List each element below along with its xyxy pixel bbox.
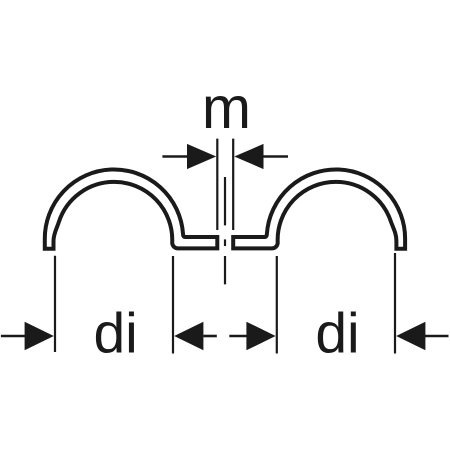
arrow tail m right [263, 155, 289, 158]
arrowhead di 1 (points right) [25, 322, 54, 351]
extension line di right-inner [276, 256, 278, 354]
svg-text:m: m [202, 75, 251, 141]
pipe profile left (band outline) [45, 169, 218, 248]
extension line m left [216, 139, 218, 230]
svg-text:di: di [315, 302, 359, 366]
pipe profile right (band outline) [233, 169, 405, 248]
arrowhead m right (points left) [234, 144, 263, 169]
arrow tail di 1 [1, 335, 26, 338]
center line (dashed) between pipes [224, 177, 226, 284]
arrowhead di 3 (points right) [246, 322, 275, 351]
arrow tail m left [162, 155, 188, 158]
svg-text:di: di [93, 302, 137, 366]
arrowhead m left (points right) [187, 144, 216, 169]
arrowhead di 4 (points left) [396, 322, 425, 351]
extension line di leftmost [54, 256, 56, 352]
arrow tail di 4 [425, 335, 449, 338]
extension line di left-inner [172, 256, 174, 354]
extension line di rightmost [394, 253, 396, 354]
arrowhead di 2 (points left) [174, 322, 203, 351]
arrow tail di 2 (dash) [204, 335, 217, 338]
arrow tail di 3 (dash) [229, 335, 246, 338]
extension line m right [232, 139, 234, 230]
